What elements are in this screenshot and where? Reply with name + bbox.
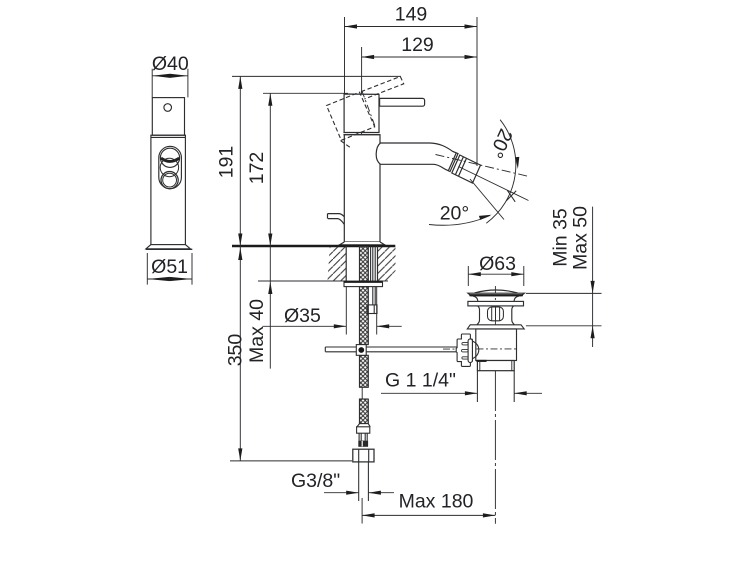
wheel slot marks [462,343,468,345]
aerator screw hole circle [164,104,172,112]
side body tube [344,135,380,242]
spout axis dash-dot line 20deg [436,155,530,177]
svg-text:Ø40: Ø40 [152,53,189,75]
dimension O63 line [468,273,524,275]
hose break connector line [361,387,363,399]
small angle arc [429,216,490,226]
knob end ring inner [163,173,177,187]
dimension O35 line [263,325,402,327]
counter hole right wall [377,246,379,281]
braided hose washer to clamp square [360,287,369,345]
rotated centerline of tilted handle (dash-dot) [362,91,375,126]
svg-text:Max 40: Max 40 [246,299,268,363]
dimension 149 extension lines [345,17,478,166]
spray line 26deg [459,167,529,201]
left hatch patch [328,246,347,281]
spout/aerator joint line [448,153,456,171]
mounting plane thick line [232,245,395,248]
dimension O51 darts [147,277,169,281]
counter underside right line [378,280,389,282]
wheel rim ellipse [472,341,478,359]
knob middle circle [160,158,178,176]
wheel front ridge pill [468,339,472,363]
dimension O40 extension lines [152,69,188,98]
tailpiece lines [477,371,514,402]
dimension G 1 1/4 arrows [465,391,478,395]
aerator ring lines [455,157,466,177]
braided hose segment in hole [360,247,369,282]
dimension 172 arrows [268,93,272,106]
dimension G3/8 arrows [346,491,359,495]
spool grille ribs [492,307,500,321]
cap neck curves [473,296,519,301]
upper flange ring [468,301,524,306]
dimension Min35/Max50 extension lines [526,293,602,325]
handle knob capsule outline [159,146,182,188]
hose end taper [357,424,370,427]
dimension O35 extension lines [346,287,376,335]
braided hose lower segment [360,399,369,424]
svg-text:Ø35: Ø35 [284,305,321,327]
drain pull-rod knob at back [328,214,345,225]
dimension 350 arrows [238,248,242,261]
spray line steep [470,179,504,220]
dimension G3/8 line [324,492,394,494]
dimension 149 line [345,26,478,28]
supply pipe below nut [359,462,369,501]
svg-text:G 1 1/4": G 1 1/4" [385,370,456,392]
lower flange ring [467,325,524,329]
drain vertical centerline (dash-dot) [494,286,496,371]
bar centerline dash-dot [443,348,473,350]
svg-text:Ø51: Ø51 [151,256,188,278]
dimension 191 arrows [238,76,242,89]
handle cap (solid) [344,94,379,133]
connector tube [359,433,367,440]
svg-text:Max 50: Max 50 [570,206,592,270]
drain main body [476,329,517,361]
dimension Max 180 arrows [362,513,375,517]
aerator body (rotated rectangle) [452,155,481,183]
front base flare [146,245,190,249]
horizontal clamp bar to drain [325,347,458,352]
threaded stud lines in hole [371,247,376,305]
small arc arrowhead [479,215,492,220]
cap/body double joint lines [343,133,379,135]
dimension 191/350 vertical line [239,76,241,461]
bottom collar [477,361,514,371]
svg-text:129: 129 [401,34,434,56]
tick cross at arc/line crossing [506,190,516,202]
front base bottom plate [146,248,193,250]
front view faucet cap [152,98,184,136]
big arc arrowhead [515,157,519,169]
svg-text:191: 191 [215,146,237,179]
big angle arc [486,120,516,224]
right hatch patch [378,246,396,281]
dimension O63 arrows [468,272,481,276]
svg-text:G3/8": G3/8" [291,470,340,492]
svg-text:149: 149 [395,4,428,26]
dimension O35 arrows [334,324,347,328]
vertical centerline of body (dash-dot) [361,91,363,246]
dimension O51 extension lines [147,253,192,285]
svg-text:350: 350 [224,334,246,367]
clamp square on hose [356,345,366,356]
knob top circle [160,148,179,167]
dimension Max40 arrow [268,282,272,295]
dimension Max 180 left extension [361,498,363,524]
counter underside left line [258,280,346,282]
drain cap plate [468,293,525,296]
front view faucet body [151,135,186,244]
hose end fitting [357,427,370,433]
dimension O63 extension lines [468,266,524,286]
dimension 172 extension line top [263,92,348,94]
dashed handle lever raised [361,77,404,100]
dimension Min35/Max50 vertical line [592,207,594,347]
drain cap dome [475,290,518,293]
dimension O40 darts [152,74,170,78]
mounting washer/flange under counter [344,281,383,286]
counter hole left wall [345,246,347,281]
handle lever (solid) [380,98,425,106]
G3/8 nut [353,449,374,462]
svg-text:172: 172 [246,152,268,185]
dashed corner tail of rotated cap [341,141,352,149]
body horizontal centerline (dash-dot) [477,348,517,350]
clamp pivot dot [358,347,364,353]
dimension O40 line [152,75,188,77]
knurled side nut wheel [456,334,472,366]
dimension 172/Max40 vertical line [269,93,271,368]
cap/body joint line [151,136,186,138]
base flare of side view [339,242,384,245]
dashed handle cap rotated [327,92,375,140]
dimension 129 line [362,56,477,58]
dimension 191 extension line top [232,75,401,77]
svg-text:Ø63: Ø63 [479,253,516,275]
knob dark band arc [161,158,179,161]
dark seal band [358,441,368,447]
braided hose below clamp [360,355,369,387]
stud nut block [367,305,377,314]
spool grille capsule [488,307,504,321]
dimension Min35/Max50 arrows [591,281,595,294]
dimension G 1 1/4 line [381,392,542,394]
svg-text:Max 180: Max 180 [399,491,474,513]
dimension O51 line [147,278,192,280]
knob end ring outer [161,172,178,189]
dimension 149 arrows [345,24,358,28]
spool body (waisted sides) [477,306,514,325]
dimension 129 extension line [361,47,363,91]
dimension Max 180 line [362,514,495,516]
dimension 350 bottom extension line [230,460,352,462]
spout (white filled, over body) [376,143,458,172]
svg-text:20°: 20° [440,203,470,225]
dimension 129 arrows [362,55,375,59]
svg-text:Min 35: Min 35 [549,208,571,267]
